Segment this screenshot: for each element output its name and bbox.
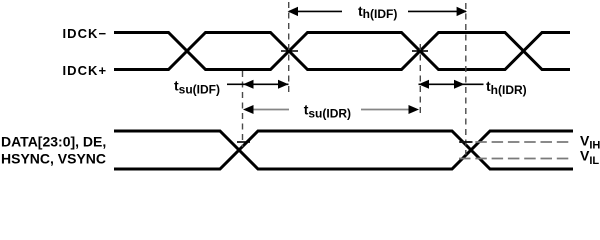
node tick at clock crossing 3 [412,50,428,52]
svg-text:IDCK+: IDCK+ [63,63,108,78]
node th(IDR) left arrowhead [419,80,430,89]
node tsu(IDR) left arrowhead [243,105,254,114]
svg-text:tsu(IDR): tsu(IDR) [304,102,351,121]
wire IDCK- trace [114,33,570,70]
node reference dashed line 2 (clock falling edge) [288,2,290,95]
node th(IDF) left arrowhead [288,7,298,16]
wire DATA upper trace [114,131,573,169]
node VIH level dashed line [459,141,570,143]
svg-text:th(IDR): th(IDR) [486,78,527,97]
svg-text:th(IDF): th(IDF) [358,3,397,21]
wire tsu(IDF) arrow shaft [243,83,289,85]
wire tsu(IDR) right gray shaft [361,109,410,111]
node reference dashed line 1 (data setup reference) [242,71,244,147]
node th(IDR) right arrowhead [454,80,465,89]
node tick at data crossing 1 [237,141,250,143]
svg-text:DATA[23:0], DE,: DATA[23:0], DE, [1,133,106,149]
wire tsu(IDF) leader line [227,83,243,85]
node tick at clock crossing 2 [281,50,298,52]
node VIL level dashed line [459,158,570,160]
node tsu(IDF) right arrowhead [278,80,289,89]
wire th(IDF) arrow right shaft [408,10,466,12]
svg-text:IDCK−: IDCK− [63,26,108,41]
node tsu(IDR) right arrowhead [409,105,420,114]
node tick at data crossing 2 [460,141,473,143]
node reference dashed line 3 (clock rising edge) [419,44,421,117]
node reference dashed line 4 (data hold reference) [465,3,467,155]
wire IDCK+ trace [114,33,570,70]
svg-text:HSYNC, VSYNC: HSYNC, VSYNC [1,150,106,166]
wire th(IDR) arrow shaft [419,83,465,85]
node th(IDF) right arrowhead [457,7,467,16]
wire tsu(IDR) left gray shaft [248,109,289,111]
wire DATA lower trace [114,131,573,169]
svg-text:tsu(IDF): tsu(IDF) [174,78,220,97]
wire th(IDR) leader line [465,83,484,85]
wire th(IDF) arrow left shaft [289,10,342,12]
node tsu(IDF) left arrowhead [243,80,254,89]
